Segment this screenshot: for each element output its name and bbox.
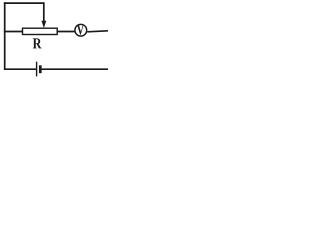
label R [33,38,42,48]
battery short plate (-) [39,65,42,73]
wire: battery to bottom right end [42,68,108,70]
wire: top horizontal [4,2,44,4]
battery long plate (+) [36,62,38,77]
wire: left to resistor [4,31,23,33]
rheostat R body [23,28,58,34]
wire: voltmeter to right end [87,31,108,32]
voltmeter label V [77,25,84,35]
wire: resistor to voltmeter [57,31,74,33]
slider arrowhead [41,21,46,28]
wire: slider drop [43,2,45,21]
voltmeter circle [75,24,87,36]
wire: bottom left to battery [4,68,37,70]
wire: left rail [4,2,6,69]
